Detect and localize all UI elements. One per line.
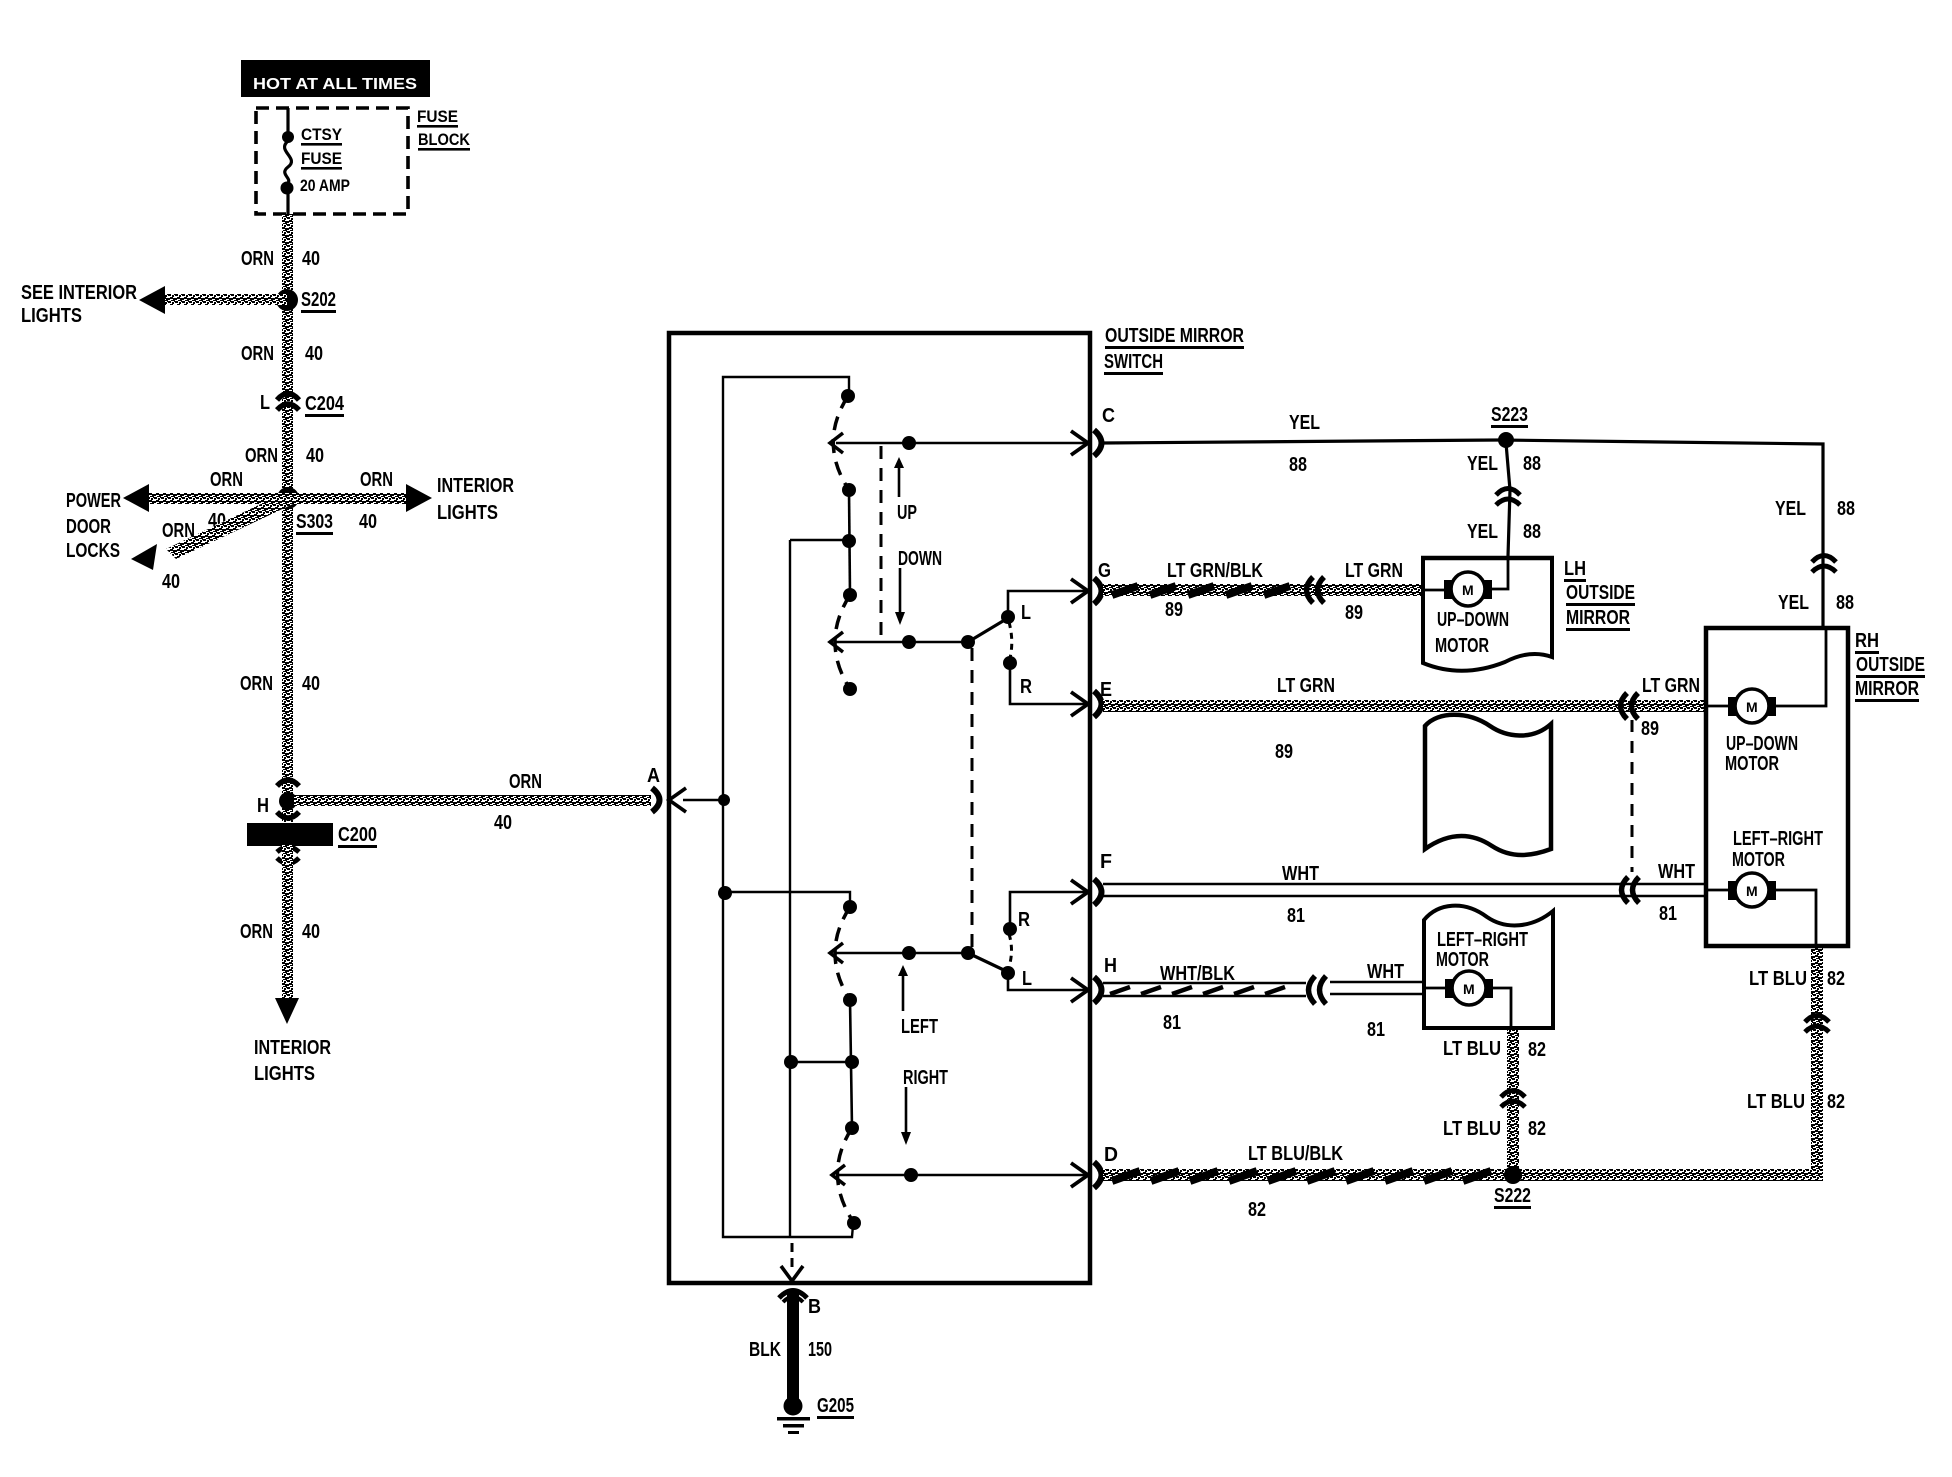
wire wiper2 to selector [836, 618, 1008, 649]
CTSY fuse 20 AMP [281, 108, 351, 215]
mechanical link selectors dashed [971, 648, 974, 948]
svg-text:R: R [1018, 909, 1030, 931]
svg-text:H: H [257, 795, 269, 817]
wire WHT/BLK 81 terminal H [1103, 963, 1306, 1034]
svg-text:YEL: YEL [1778, 592, 1809, 614]
svg-text:LOCKS: LOCKS [66, 540, 120, 562]
wire ORN 40 fuse to S202 [241, 214, 320, 822]
wire branch ORN 40 to INTERIOR LIGHTS right [288, 469, 514, 533]
mechanical link UP DOWN dashed [881, 446, 942, 641]
svg-text:DOOR: DOOR [66, 516, 111, 538]
svg-text:40: 40 [306, 445, 324, 467]
svg-text:81: 81 [1163, 1012, 1181, 1034]
rocker contact left-right F/H [830, 900, 857, 1007]
node R upper selector [1003, 656, 1032, 698]
LH left-right motor box [1424, 906, 1553, 1028]
svg-text:R: R [1020, 676, 1032, 698]
svg-text:A: A [647, 765, 660, 787]
connector inline E wire [1621, 675, 1701, 740]
svg-text:POWER: POWER [66, 490, 121, 512]
HOT AT ALL TIMES power label box [241, 60, 430, 97]
ground G205 [777, 1395, 854, 1434]
svg-text:UP: UP [897, 502, 917, 524]
wire R to terminal E [1010, 663, 1087, 704]
svg-text:FUSE: FUSE [301, 149, 342, 168]
svg-text:89: 89 [1641, 718, 1659, 740]
motor M RH up-down [1706, 630, 1826, 775]
svg-text:LT BLU: LT BLU [1443, 1038, 1501, 1060]
wire L to terminal H [1008, 973, 1087, 990]
svg-text:INTERIOR: INTERIOR [254, 1037, 331, 1059]
terminal D [1071, 1144, 1118, 1188]
connector inline YEL branch [1496, 489, 1520, 506]
svg-text:ORN: ORN [241, 343, 274, 365]
svg-text:UP–DOWN: UP–DOWN [1726, 733, 1798, 755]
wire link rocker3 to rocker4 [784, 1000, 859, 1128]
connector inline H wire [1309, 961, 1405, 1041]
svg-text:MOTOR: MOTOR [1436, 949, 1489, 971]
terminal F [1071, 851, 1112, 905]
svg-text:G: G [1098, 560, 1111, 582]
wire WHT 81 terminal F [1103, 863, 1706, 927]
svg-text:HOT AT ALL TIMES: HOT AT ALL TIMES [253, 76, 417, 93]
wire LT BLU/BLK 82 terminal D [1103, 1143, 1823, 1221]
svg-text:MOTOR: MOTOR [1435, 635, 1489, 657]
wire LT GRN 89 terminal E [1103, 675, 1706, 763]
terminal G [1071, 560, 1111, 604]
svg-text:88: 88 [1523, 453, 1541, 475]
wire ORN 40 S303 down to C200 [240, 673, 320, 695]
wire diagonal branch ORN 40 lower left [131, 494, 293, 593]
node H junction above C200 [257, 780, 299, 818]
wire inner vertical bus [790, 540, 849, 1237]
svg-text:LEFT–RIGHT: LEFT–RIGHT [1437, 929, 1528, 951]
svg-text:88: 88 [1837, 498, 1855, 520]
terminal A [647, 765, 686, 812]
wire to terminal B dashed [781, 1243, 803, 1281]
svg-text:82: 82 [1827, 968, 1845, 990]
svg-text:M: M [1463, 981, 1475, 997]
svg-text:YEL: YEL [1467, 453, 1498, 475]
connector inline F wire [1622, 861, 1696, 925]
svg-text:M: M [1746, 699, 1758, 715]
svg-text:81: 81 [1367, 1019, 1385, 1041]
svg-text:MIRROR: MIRROR [1855, 678, 1919, 700]
svg-text:ORN: ORN [241, 248, 274, 270]
rocker contact up-down C [830, 389, 856, 497]
svg-text:UP–DOWN: UP–DOWN [1437, 609, 1509, 631]
svg-text:LT GRN: LT GRN [1642, 675, 1700, 697]
svg-text:82: 82 [1528, 1118, 1546, 1140]
svg-text:82: 82 [1528, 1039, 1546, 1061]
svg-text:88: 88 [1289, 454, 1307, 476]
svg-text:C: C [1102, 405, 1115, 427]
connector C200 [247, 823, 377, 864]
svg-text:LEFT: LEFT [901, 1016, 938, 1038]
svg-text:LT BLU: LT BLU [1747, 1091, 1805, 1113]
svg-text:DOWN: DOWN [898, 548, 942, 570]
connector inline YEL right [1812, 556, 1836, 573]
svg-text:CTSY: CTSY [301, 125, 343, 144]
svg-text:LT GRN: LT GRN [1277, 675, 1335, 697]
svg-text:LH: LH [1564, 558, 1586, 580]
wire ORN 40 C204 to S303 [245, 445, 324, 467]
svg-text:40: 40 [162, 571, 180, 593]
svg-text:OUTSIDE: OUTSIDE [1856, 654, 1925, 676]
svg-text:YEL: YEL [1467, 521, 1498, 543]
svg-text:BLK: BLK [749, 1339, 781, 1361]
svg-text:YEL: YEL [1775, 498, 1806, 520]
svg-text:ORN: ORN [240, 921, 273, 943]
connector inline G wire [1307, 560, 1404, 624]
svg-text:RIGHT: RIGHT [903, 1067, 948, 1089]
svg-text:E: E [1100, 679, 1112, 701]
svg-text:S202: S202 [301, 289, 336, 311]
svg-text:L: L [1021, 602, 1031, 624]
svg-text:ORN: ORN [240, 673, 273, 695]
svg-text:ORN: ORN [509, 771, 542, 793]
svg-text:82: 82 [1827, 1091, 1845, 1113]
svg-text:LT BLU/BLK: LT BLU/BLK [1248, 1143, 1343, 1165]
mechanical link LEFT RIGHT arrows [898, 965, 948, 1145]
svg-text:89: 89 [1275, 741, 1293, 763]
wire YEL 88 right vertical labels [1775, 498, 1855, 614]
wire wiper to terminal C [836, 436, 1087, 450]
svg-text:C204: C204 [305, 393, 345, 415]
connector inline LH LT BLU [1501, 1091, 1525, 1108]
svg-text:LT GRN: LT GRN [1345, 560, 1403, 582]
svg-text:40: 40 [359, 511, 377, 533]
wire junction left bus to rocker3 [718, 886, 850, 907]
svg-text:H: H [1104, 955, 1117, 977]
svg-text:WHT: WHT [1282, 863, 1319, 885]
svg-text:MIRROR: MIRROR [1566, 607, 1630, 629]
svg-text:20 AMP: 20 AMP [300, 176, 350, 195]
svg-text:FUSE: FUSE [417, 107, 458, 126]
svg-text:40: 40 [305, 343, 323, 365]
svg-text:40: 40 [302, 248, 320, 270]
node R lower selector [1003, 909, 1030, 967]
splice S202 [276, 289, 336, 313]
wire ORN 40 C200 down to INTERIOR LIGHTS [240, 844, 331, 1085]
svg-text:INTERIOR: INTERIOR [437, 475, 514, 497]
wire ORN 40 horizontal to switch terminal A [294, 771, 651, 834]
svg-text:SWITCH: SWITCH [1104, 351, 1163, 373]
svg-text:LIGHTS: LIGHTS [21, 305, 82, 327]
wire WHT to LH left-right motor [1330, 982, 1424, 994]
svg-text:89: 89 [1165, 599, 1183, 621]
rocker contact left-right D [832, 1121, 861, 1230]
svg-text:40: 40 [302, 673, 320, 695]
fuse block dashed outline [256, 108, 408, 214]
svg-text:OUTSIDE MIRROR: OUTSIDE MIRROR [1105, 325, 1244, 347]
svg-text:S303: S303 [296, 511, 333, 533]
svg-text:40: 40 [302, 921, 320, 943]
svg-text:LEFT–RIGHT: LEFT–RIGHT [1733, 828, 1823, 850]
svg-text:RH: RH [1855, 630, 1879, 652]
svg-text:LIGHTS: LIGHTS [254, 1063, 315, 1085]
wire LT BLU 82 right vertical to RH motor [1747, 948, 1845, 1175]
wire YEL 88 S223 branch down to LH mirror [1467, 443, 1541, 556]
wire LT BLU 82 LH motor down to S222 [1443, 1030, 1546, 1175]
svg-text:LT BLU: LT BLU [1749, 968, 1807, 990]
RH outside mirror box [1706, 628, 1925, 946]
motor M LH up-down [1423, 558, 1508, 606]
terminal C [1071, 405, 1115, 456]
svg-text:WHT: WHT [1367, 961, 1404, 983]
svg-text:YEL: YEL [1289, 412, 1320, 434]
connector C204 [260, 392, 345, 417]
outside mirror switch box [669, 325, 1244, 1283]
svg-text:81: 81 [1659, 903, 1677, 925]
connector inline RH LT BLU [1805, 1016, 1829, 1033]
svg-text:LT GRN/BLK: LT GRN/BLK [1167, 560, 1263, 582]
terminal H [1071, 955, 1117, 1003]
wire YEL 88 terminal C to RH mirror [1103, 412, 1823, 628]
wire ORN 40 S202 to C204 [241, 343, 323, 365]
LH mirror label [1564, 558, 1635, 631]
motor M RH left-right [1706, 828, 1823, 946]
wire BLK 150 terminal B to ground [749, 1293, 832, 1405]
svg-text:C200: C200 [338, 824, 377, 846]
switch inner frame [723, 377, 853, 1237]
svg-text:150: 150 [808, 1339, 832, 1361]
LH outside mirror up-down motor box [1421, 558, 1554, 671]
svg-text:SEE INTERIOR: SEE INTERIOR [21, 282, 137, 304]
node L lower selector [1001, 966, 1032, 990]
svg-text:M: M [1746, 883, 1758, 899]
node A junction [683, 794, 730, 806]
node L upper selector [1001, 602, 1031, 658]
svg-text:LIGHTS: LIGHTS [437, 502, 498, 524]
svg-text:ORN: ORN [360, 469, 393, 491]
svg-text:88: 88 [1836, 592, 1854, 614]
wire branch to SEE INTERIOR LIGHTS [21, 282, 287, 327]
svg-text:M: M [1462, 582, 1474, 598]
fuse block label FUSE BLOCK [417, 107, 471, 151]
svg-text:OUTSIDE: OUTSIDE [1566, 582, 1635, 604]
svg-text:B: B [808, 1296, 821, 1318]
svg-text:MOTOR: MOTOR [1732, 849, 1785, 871]
motor M LH left-right [1424, 971, 1511, 1028]
rocker contact up-down G/E [830, 588, 857, 696]
svg-text:LT BLU: LT BLU [1443, 1118, 1501, 1140]
svg-text:ORN: ORN [245, 445, 278, 467]
wire wiper4 to terminal D [838, 1168, 1087, 1182]
svg-text:40: 40 [494, 812, 512, 834]
splice S222 [1494, 1166, 1531, 1209]
svg-text:WHT: WHT [1658, 861, 1695, 883]
wire L to terminal G [1008, 591, 1087, 617]
svg-text:S223: S223 [1491, 404, 1528, 426]
svg-text:ORN: ORN [210, 469, 243, 491]
svg-text:88: 88 [1523, 521, 1541, 543]
mechanical link dashed E to F connector [1631, 720, 1634, 872]
svg-text:BLOCK: BLOCK [418, 130, 471, 149]
terminal E [1071, 679, 1112, 717]
svg-text:F: F [1100, 851, 1112, 873]
LH mirror torn outline segment [1425, 715, 1551, 855]
svg-text:S222: S222 [1494, 1185, 1531, 1207]
terminal B below box [779, 1291, 821, 1319]
svg-text:MOTOR: MOTOR [1725, 753, 1779, 775]
svg-text:L: L [260, 392, 270, 414]
wire wiper3 to selector [836, 946, 1008, 972]
svg-text:L: L [1022, 968, 1032, 990]
wire LT GRN/BLK 89 terminal G [1103, 560, 1423, 621]
wire link rocker1 to rocker2 [842, 490, 856, 595]
svg-text:G205: G205 [817, 1395, 854, 1417]
svg-text:82: 82 [1248, 1199, 1266, 1221]
svg-text:81: 81 [1287, 905, 1305, 927]
splice S223 [1491, 404, 1528, 448]
svg-text:WHT/BLK: WHT/BLK [1160, 963, 1235, 985]
splice S303 [277, 487, 333, 535]
wire branch ORN 40 to POWER DOOR LOCKS [66, 469, 288, 562]
svg-text:ORN: ORN [162, 520, 195, 542]
svg-text:D: D [1104, 1144, 1118, 1166]
wire R to terminal F [1010, 892, 1087, 929]
svg-text:89: 89 [1345, 602, 1363, 624]
